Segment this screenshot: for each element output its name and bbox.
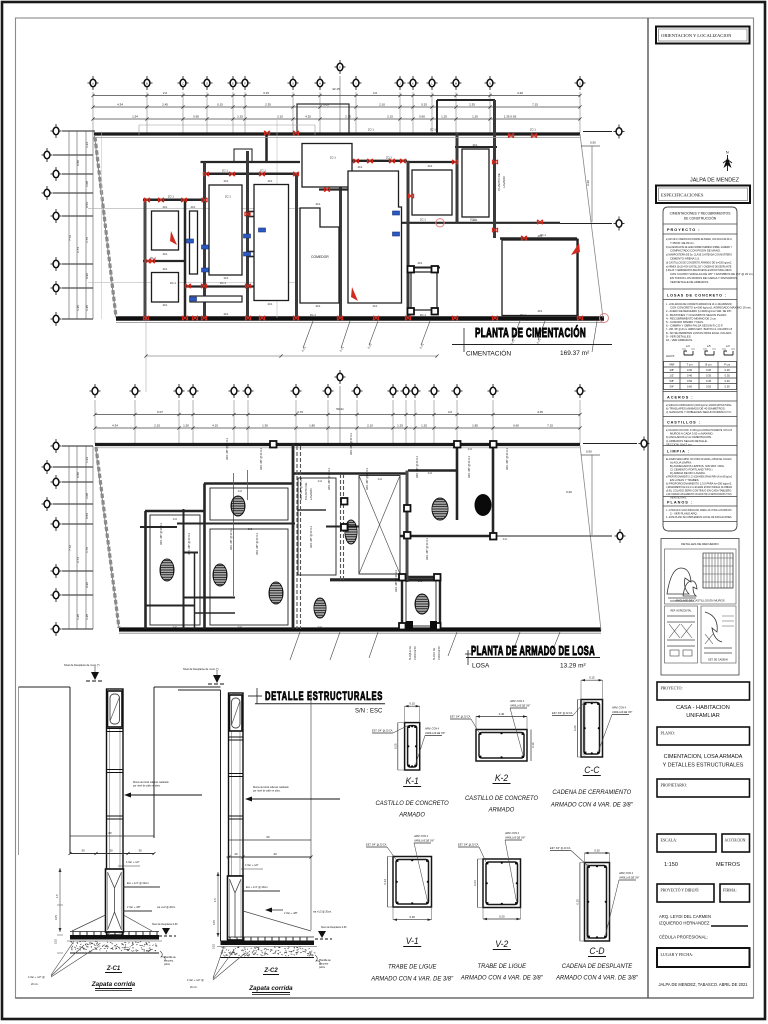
svg-text:0.16: 0.16 bbox=[531, 742, 535, 748]
svg-text:30: 30 bbox=[109, 849, 113, 853]
svg-text:20.1: 20.1 bbox=[268, 303, 273, 306]
ZC2 column joint bbox=[229, 737, 244, 740]
svg-text:2.45: 2.45 bbox=[162, 102, 168, 106]
svg-text:LOSA: LOSA bbox=[472, 663, 490, 670]
section label V-1 bbox=[370, 936, 454, 983]
svg-text:ARMADO: ARMADO bbox=[398, 811, 425, 818]
svg-text:ARM. CON 4: ARM. CON 4 bbox=[504, 832, 520, 835]
svg-text:CADENA DE DESPLANTE: CADENA DE DESPLANTE bbox=[562, 963, 633, 970]
svg-text:C-C: C-C bbox=[428, 472, 433, 475]
svg-text:TRABE DE LIGUE: TRABE DE LIGUE bbox=[478, 963, 527, 970]
svg-text:ZC-1: ZC-1 bbox=[222, 169, 228, 173]
section V-2 bbox=[458, 832, 525, 920]
svg-text:3/8": 3/8" bbox=[670, 368, 675, 372]
svg-text:4.6: 4.6 bbox=[448, 410, 453, 414]
plan2 rotated room label bbox=[304, 482, 313, 500]
svg-text:CIMENTACIÓN: CIMENTACIÓN bbox=[466, 349, 511, 358]
section C-D bbox=[550, 847, 639, 941]
svg-text:CASTILLO DE CONCRETO: CASTILLO DE CONCRETO bbox=[465, 795, 538, 802]
svg-text:0.54: 0.54 bbox=[85, 513, 89, 519]
specifications panel bbox=[663, 207, 754, 531]
svg-text:80: 80 bbox=[108, 831, 112, 835]
title planta de armado de losa bbox=[465, 644, 600, 670]
svg-text:VAR: VAR bbox=[669, 363, 674, 367]
wall bbox=[143, 260, 185, 262]
room bbox=[209, 185, 242, 275]
svg-text:20.1: 20.1 bbox=[191, 206, 196, 209]
svg-text:ARM. CON 4: ARM. CON 4 bbox=[618, 872, 634, 875]
svg-text:VARILLAS DE 3/8": VARILLAS DE 3/8" bbox=[505, 837, 525, 840]
ZC2 spread line bbox=[243, 911, 311, 931]
plan2 left dimension lines bbox=[68, 446, 93, 629]
svg-text:CIMENTACIONES Y RECUBRIMIENTOS: CIMENTACIONES Y RECUBRIMIENTOS bbox=[670, 211, 732, 215]
ZC1 zapata corrida label bbox=[91, 981, 136, 991]
svg-text:20.1: 20.1 bbox=[163, 206, 168, 209]
plan2 left boundary (tapia) bbox=[96, 447, 119, 628]
plan2 interior walls bbox=[145, 444, 493, 629]
svg-text:20.1: 20.1 bbox=[473, 219, 478, 222]
wall bbox=[143, 199, 205, 202]
svg-text:LUGAR Y FECHA:: LUGAR Y FECHA: bbox=[661, 952, 694, 957]
svg-text:20.1: 20.1 bbox=[163, 268, 168, 271]
svg-text:E: E bbox=[232, 82, 234, 86]
svg-text:LOSAS DE CONCRETO :: LOSAS DE CONCRETO : bbox=[667, 294, 727, 298]
svg-text:1/2": 1/2" bbox=[670, 374, 675, 378]
ZC2 column head box bbox=[230, 695, 243, 731]
svg-text:0.24: 0.24 bbox=[383, 879, 387, 885]
wall bbox=[246, 151, 249, 318]
svg-text:2.15: 2.15 bbox=[154, 423, 160, 427]
svg-text:ZC-1: ZC-1 bbox=[520, 313, 526, 317]
svg-text:20.1: 20.1 bbox=[163, 304, 168, 307]
proyecto text bbox=[676, 705, 730, 719]
svg-text:1.85: 1.85 bbox=[309, 423, 315, 427]
svg-text:por nivel de calle en obra.: por nivel de calle en obra. bbox=[253, 790, 281, 793]
svg-text:20.1: 20.1 bbox=[373, 305, 378, 308]
svg-text:DETALLES DE REFUERZO: DETALLES DE REFUERZO bbox=[681, 542, 719, 546]
svg-text:EST. 3/4" @ 20 CA.: EST. 3/4" @ 20 CA. bbox=[450, 716, 471, 719]
svg-text:PROPIETARIO:: PROPIETARIO: bbox=[661, 783, 688, 788]
wall bbox=[500, 237, 577, 240]
svg-text:var.+1/2 @ 20cm.: var.+1/2 @ 20cm. bbox=[157, 906, 176, 909]
svg-text:C-C: C-C bbox=[378, 478, 383, 481]
svg-text:4.20: 4.20 bbox=[517, 91, 523, 95]
svg-text:ZC-1: ZC-1 bbox=[430, 128, 436, 132]
svg-text:O: O bbox=[579, 82, 581, 86]
svg-text:VAR. 3/8" @ 20 V-1: VAR. 3/8" @ 20 V-1 bbox=[230, 528, 233, 550]
svg-text:0.30: 0.30 bbox=[409, 915, 415, 919]
svg-text:UNIFAMLIAR: UNIFAMLIAR bbox=[686, 713, 720, 719]
proyecto y dibujo box bbox=[657, 884, 714, 902]
svg-text:Nivel de Desplante 0.60: Nivel de Desplante 0.60 bbox=[321, 926, 347, 929]
ZC1 gravel bed bbox=[67, 941, 162, 953]
wall stub bbox=[248, 252, 259, 257]
svg-text:VER DETALLE DE ARMADOS.: VER DETALLE DE ARMADOS. bbox=[670, 280, 709, 284]
svg-text:C-D: C-D bbox=[589, 946, 605, 957]
svg-text:TRABE DE LIGUE: TRABE DE LIGUE bbox=[388, 964, 437, 971]
svg-text:CONCRETO: CONCRETO bbox=[438, 646, 441, 660]
propietario box bbox=[657, 779, 750, 797]
svg-text:G: G bbox=[292, 82, 294, 86]
wall bbox=[456, 133, 459, 223]
plan2 leader labels bbox=[290, 621, 560, 660]
wall tags bbox=[150, 128, 546, 318]
column markers bbox=[408, 266, 439, 315]
svg-text:0.15: 0.15 bbox=[409, 702, 415, 706]
svg-text:ARMADO CON 4 VAR. DE 3/8": ARMADO CON 4 VAR. DE 3/8" bbox=[370, 975, 454, 982]
svg-text:2.35: 2.35 bbox=[469, 102, 475, 106]
svg-text:VAR. 3/8" @ 20 V-1: VAR. 3/8" @ 20 V-1 bbox=[226, 438, 229, 460]
svg-text:ZC-1: ZC-1 bbox=[220, 281, 226, 285]
section label K-1 bbox=[376, 776, 449, 819]
ZC1 pedestal bbox=[106, 869, 124, 932]
plan1 grid bubbles top row bbox=[88, 76, 586, 90]
escala value bbox=[664, 862, 740, 868]
svg-text:0.75: 0.75 bbox=[213, 920, 216, 925]
svg-text:6.07: 6.07 bbox=[157, 410, 163, 414]
svg-text:2.10: 2.10 bbox=[277, 114, 283, 118]
wall bbox=[319, 187, 357, 191]
svg-text:10.- VER ARMADOS.: 10.- VER ARMADOS. bbox=[666, 338, 693, 342]
svg-text:VAR. 3/8" @ 20 V-1: VAR. 3/8" @ 20 V-1 bbox=[160, 523, 163, 545]
svg-text:ACOTACION:: ACOTACION: bbox=[725, 839, 747, 843]
ZC2 right level marker bbox=[315, 931, 332, 939]
svg-text:METROS: METROS bbox=[716, 862, 740, 868]
svg-text:K-2: K-2 bbox=[495, 773, 508, 784]
svg-text:P: P bbox=[339, 66, 341, 70]
svg-text:0.20: 0.20 bbox=[213, 944, 216, 949]
svg-text:3.- ESTE PLANO SE COMPLEMENTA: 3.- ESTE PLANO SE COMPLEMENTA CON EL DE … bbox=[666, 515, 732, 519]
svg-text:1.24: 1.24 bbox=[85, 457, 89, 463]
svg-text:0.35: 0.35 bbox=[706, 374, 712, 378]
red arrow markers bbox=[170, 219, 609, 323]
svg-text:DETALLE ESTRUCTURALES: DETALLE ESTRUCTURALES bbox=[265, 691, 383, 703]
title planta de cimentacion bbox=[452, 325, 612, 358]
svg-text:0.20: 0.20 bbox=[393, 743, 397, 749]
svg-text:ARM. CON 4: ARM. CON 4 bbox=[611, 707, 627, 710]
room bbox=[502, 240, 577, 316]
ZC2 pedestal bbox=[228, 876, 244, 940]
room bath bbox=[411, 272, 437, 310]
svg-text:C-C: C-C bbox=[503, 538, 508, 541]
svg-text:N: N bbox=[489, 82, 491, 86]
section label C-D bbox=[555, 946, 639, 982]
svg-text:CASTILLO DE CONCRETO: CASTILLO DE CONCRETO bbox=[376, 800, 449, 807]
svg-text:VARILLAS DE 3/8": VARILLAS DE 3/8" bbox=[612, 711, 632, 714]
svg-text:20.1: 20.1 bbox=[538, 235, 543, 238]
svg-text:Z-C1: Z-C1 bbox=[106, 966, 121, 972]
svg-text:CADENA DE CERRAMIENTO: CADENA DE CERRAMIENTO bbox=[552, 789, 631, 796]
svg-text:C-C: C-C bbox=[173, 518, 178, 521]
svg-text:PROYECTO:: PROYECTO: bbox=[661, 686, 683, 691]
svg-text:40: 40 bbox=[273, 852, 277, 856]
svg-text:0.30: 0.30 bbox=[687, 368, 693, 372]
svg-text:0.40: 0.40 bbox=[687, 374, 693, 378]
ZC1 muros label bbox=[124, 781, 202, 798]
plan2 grid extension lines bbox=[95, 400, 580, 444]
ZC2 level marker bbox=[183, 667, 226, 684]
plan2 right grid bubbles bbox=[495, 437, 650, 544]
svg-text:2.10: 2.10 bbox=[379, 102, 385, 106]
plan1 right grid bubbles bbox=[560, 125, 625, 231]
plan1 bottom dimension line bbox=[144, 354, 438, 357]
svg-text:Zapata corrida: Zapata corrida bbox=[91, 981, 136, 988]
title column separator bbox=[647, 18, 649, 998]
svg-text:20.1: 20.1 bbox=[163, 253, 168, 256]
svg-text:1.5: 1.5 bbox=[213, 898, 217, 902]
room comedor bbox=[300, 208, 339, 303]
svg-text:0.60: 0.60 bbox=[419, 114, 425, 118]
svg-text:0.25: 0.25 bbox=[421, 102, 427, 106]
ZC1 plantilla label bbox=[160, 951, 176, 966]
svg-text:20.1: 20.1 bbox=[268, 180, 273, 183]
svg-text:0.50: 0.50 bbox=[76, 472, 80, 478]
svg-text:1.54: 1.54 bbox=[132, 114, 138, 118]
wall bbox=[205, 173, 299, 176]
svg-text:0.40: 0.40 bbox=[499, 712, 505, 716]
section label V-2 bbox=[460, 939, 544, 982]
svg-text:2.74: 2.74 bbox=[76, 247, 80, 253]
svg-text:0.54: 0.54 bbox=[85, 202, 89, 208]
plan1 bottom foundation wall bbox=[116, 316, 604, 320]
svg-text:H: H bbox=[319, 82, 321, 86]
svg-text:1.76: 1.76 bbox=[85, 237, 89, 243]
svg-text:C-C: C-C bbox=[418, 580, 423, 583]
svg-text:0.40: 0.40 bbox=[725, 379, 731, 383]
svg-text:PLANO:: PLANO: bbox=[661, 731, 675, 736]
svg-text:4.25: 4.25 bbox=[537, 410, 543, 414]
red rebar markers bbox=[143, 131, 582, 320]
svg-text:0.50: 0.50 bbox=[725, 385, 731, 389]
svg-text:S/N : ESC: S/N : ESC bbox=[355, 709, 383, 715]
svg-text:1.20: 1.20 bbox=[472, 114, 478, 118]
ZC2 column joint bbox=[229, 774, 244, 777]
svg-text:ZC-1: ZC-1 bbox=[368, 128, 374, 132]
svg-text:3.20: 3.20 bbox=[586, 180, 590, 186]
svg-text:ZC-1: ZC-1 bbox=[330, 156, 336, 160]
svg-text:2.35: 2.35 bbox=[345, 114, 351, 118]
svg-text:30: 30 bbox=[81, 849, 85, 853]
svg-text:7.72: 7.72 bbox=[68, 545, 72, 551]
svg-text:JALPA DE MENDEZ: JALPA DE MENDEZ bbox=[690, 178, 740, 184]
stairs opening X bbox=[359, 476, 400, 575]
svg-text:A: A bbox=[92, 82, 94, 86]
svg-text:por nivel de calle en obra.: por nivel de calle en obra. bbox=[133, 785, 161, 788]
wall bbox=[436, 100, 438, 133]
svg-text:2.15: 2.15 bbox=[387, 114, 393, 118]
svg-text:7.15: 7.15 bbox=[547, 423, 553, 427]
svg-text:EST. 3/4" @ 20 CA.: EST. 3/4" @ 20 CA. bbox=[552, 712, 573, 715]
ZC2 ground level lines bbox=[178, 690, 311, 941]
svg-text:4.25: 4.25 bbox=[305, 114, 311, 118]
svg-text:50.41: 50.41 bbox=[336, 407, 344, 411]
svg-text:CÉDULA PROFESIONAL:: CÉDULA PROFESIONAL: bbox=[659, 935, 708, 940]
svg-text:P cm: P cm bbox=[724, 363, 730, 367]
svg-text:N: N bbox=[726, 150, 729, 155]
svg-text:Y DETALLES ESTRUCTURALES: Y DETALLES ESTRUCTURALES bbox=[663, 763, 744, 769]
wall stub bbox=[249, 212, 259, 217]
ZC2 rebar labels bbox=[241, 864, 347, 929]
section K-2 bbox=[450, 700, 535, 761]
svg-text:1.08: 1.08 bbox=[85, 493, 89, 499]
svg-text:ARMADO CON 4 VAR. DE 3/8": ARMADO CON 4 VAR. DE 3/8" bbox=[555, 975, 639, 982]
svg-text:VAR. 3/8" @ 20 V-1: VAR. 3/8" @ 20 V-1 bbox=[328, 468, 331, 490]
svg-text:CASA - HABITACION: CASA - HABITACION bbox=[676, 705, 730, 711]
wall bbox=[402, 222, 560, 224]
svg-text:0.20: 0.20 bbox=[55, 939, 58, 944]
svg-text:1.25: 1.25 bbox=[85, 614, 89, 620]
svg-text:C-C: C-C bbox=[468, 448, 473, 451]
svg-text:2 Var. + 3/8": 2 Var. + 3/8" bbox=[127, 906, 141, 909]
svg-text:1.25: 1.25 bbox=[237, 114, 243, 118]
architect name bbox=[659, 914, 748, 940]
title detalle estructurales bbox=[248, 688, 385, 715]
svg-text:3.15: 3.15 bbox=[263, 91, 269, 95]
svg-text:D: D bbox=[206, 82, 208, 86]
svg-text:VAR. 3/8" @ 20 V-1: VAR. 3/8" @ 20 V-1 bbox=[416, 456, 419, 478]
slab rebar labels bbox=[160, 433, 509, 592]
svg-text:ZC-1: ZC-1 bbox=[150, 256, 156, 260]
svg-text:4.34: 4.34 bbox=[117, 102, 123, 106]
orientation title box bbox=[656, 27, 750, 44]
svg-text:PLANOS :: PLANOS : bbox=[667, 501, 693, 505]
wall bbox=[576, 239, 579, 319]
svg-text:1:150: 1:150 bbox=[664, 862, 678, 868]
wall bbox=[455, 146, 497, 148]
svg-text:1.25: 1.25 bbox=[76, 614, 80, 620]
svg-text:4.6: 4.6 bbox=[373, 91, 378, 95]
svg-text:2.35: 2.35 bbox=[265, 102, 271, 106]
plan1 left dimension lines bbox=[68, 131, 93, 319]
svg-text:Z-C2: Z-C2 bbox=[263, 968, 278, 974]
svg-text:1.30: 1.30 bbox=[262, 423, 268, 427]
ZC1 column joint bbox=[107, 770, 124, 773]
plan2 right boundary line bbox=[580, 445, 601, 630]
svg-text:0.95: 0.95 bbox=[193, 114, 199, 118]
ZC2 gravel bed bbox=[217, 947, 317, 958]
svg-text:169.37 m²: 169.37 m² bbox=[560, 350, 590, 357]
svg-text:20.1: 20.1 bbox=[473, 144, 478, 147]
svg-text:DE CONSTRUCCIÓN: DE CONSTRUCCIÓN bbox=[684, 215, 717, 220]
svg-text:0.60: 0.60 bbox=[687, 385, 693, 389]
ZC1 spread lines bbox=[72, 915, 152, 931]
svg-text:20.1: 20.1 bbox=[224, 313, 229, 316]
dala strip bbox=[190, 296, 242, 302]
svg-text:ANCLAJE DE CASTILLOS EN MUROS: ANCLAJE DE CASTILLOS EN MUROS bbox=[675, 599, 724, 603]
svg-text:1.85: 1.85 bbox=[472, 423, 478, 427]
ZC2 column bbox=[229, 693, 244, 876]
svg-text:4.34: 4.34 bbox=[112, 423, 118, 427]
svg-text:3.20: 3.20 bbox=[566, 490, 572, 494]
svg-text:pobre: pobre bbox=[319, 966, 326, 969]
room bbox=[412, 170, 452, 215]
svg-text:COMEDOR: COMEDOR bbox=[311, 255, 329, 259]
porch outline above top wall bbox=[234, 104, 349, 162]
ZC1 right level marker bbox=[152, 923, 178, 936]
svg-text:Nivel de Desplante de muro (*): Nivel de Desplante de muro (*) bbox=[64, 663, 100, 667]
north arrow bbox=[723, 150, 732, 172]
svg-text:C-C: C-C bbox=[318, 480, 323, 483]
svg-text:4.15: 4.15 bbox=[212, 423, 218, 427]
proyecto box bbox=[657, 682, 750, 700]
svg-text:EST. 3/4" @ 20 CA.: EST. 3/4" @ 20 CA. bbox=[458, 844, 479, 847]
ZC1 footing slab bbox=[70, 932, 159, 940]
svg-text:20.1: 20.1 bbox=[358, 166, 363, 169]
ZC2 width dimensions bbox=[227, 835, 313, 859]
wall bbox=[295, 174, 298, 318]
plan2 grid bubbles top row bbox=[90, 384, 586, 398]
room closet bbox=[190, 211, 198, 274]
svg-text:ZC-1: ZC-1 bbox=[420, 218, 426, 222]
hatched drain ellipses bbox=[155, 492, 452, 623]
svg-text:1.25: 1.25 bbox=[85, 305, 89, 311]
plan2 top slab wall bbox=[95, 443, 580, 446]
svg-text:42.15: 42.15 bbox=[332, 87, 340, 91]
svg-text:4 Var. + 1/2" @: 4 Var. + 1/2" @ bbox=[28, 976, 45, 979]
svg-text:PLANTA DE CIMENTACIÓN: PLANTA DE CIMENTACIÓN bbox=[475, 325, 586, 340]
plot boundary solid lines bbox=[95, 136, 120, 629]
svg-text:VAR. 3/8" @ 20 V-1: VAR. 3/8" @ 20 V-1 bbox=[468, 456, 471, 478]
especificaciones title box bbox=[656, 186, 750, 204]
svg-text:0.55: 0.55 bbox=[706, 385, 712, 389]
svg-text:ZC-1: ZC-1 bbox=[225, 195, 231, 199]
plan2 extra interior walls bbox=[140, 470, 359, 629]
svg-text:VARILLAS DE 3/8": VARILLAS DE 3/8" bbox=[510, 705, 530, 708]
svg-text:ARMADO CON 4 VAR. DE 3/8": ARMADO CON 4 VAR. DE 3/8" bbox=[550, 801, 634, 808]
plan2 raised grid bubble bbox=[335, 370, 346, 444]
svg-text:1.25: 1.25 bbox=[76, 305, 80, 311]
svg-text:Nivel de Desplante 0.60: Nivel de Desplante 0.60 bbox=[152, 923, 178, 926]
svg-text:1.25: 1.25 bbox=[397, 423, 403, 427]
svg-text:ZC-1: ZC-1 bbox=[260, 169, 266, 173]
svg-text:T cm: T cm bbox=[687, 363, 693, 367]
svg-text:ARM. CON 4: ARM. CON 4 bbox=[424, 728, 440, 731]
ZC1 level marker bbox=[64, 663, 104, 681]
ZC1 width dimension bbox=[69, 831, 156, 855]
svg-text:ZC-1: ZC-1 bbox=[170, 281, 176, 285]
svg-text:ORIENTACION Y LOCALIZACION: ORIENTACION Y LOCALIZACION bbox=[661, 33, 732, 38]
svg-text:ACOT.: ACOT. bbox=[666, 354, 675, 358]
room cuarto de lavado bbox=[462, 149, 506, 217]
svg-text:M: M bbox=[455, 82, 457, 86]
svg-text:VARILLAS DE 3/8": VARILLAS DE 3/8" bbox=[414, 840, 434, 843]
svg-text:Nivel de Desplante de muro (*): Nivel de Desplante de muro (*) bbox=[183, 667, 219, 671]
svg-text:PROYECTO :: PROYECTO : bbox=[667, 228, 701, 232]
svg-text:20.1: 20.1 bbox=[316, 203, 321, 206]
svg-text:Est. + 1/4" @ 20cm.: Est. + 1/4" @ 20cm. bbox=[246, 886, 269, 889]
ZC2 plantilla label bbox=[315, 955, 331, 969]
svg-text:VAR. 3/8" @ 20 V-1: VAR. 3/8" @ 20 V-1 bbox=[310, 526, 313, 548]
wall bbox=[339, 161, 342, 318]
plan1 raised grid bubble bbox=[335, 60, 346, 133]
ZC1 bottom leaders bbox=[28, 941, 94, 986]
black drain ellipse bbox=[475, 494, 492, 516]
svg-text:VAR. 3/8" @ 20 V-1: VAR. 3/8" @ 20 V-1 bbox=[395, 570, 398, 592]
svg-text:60: 60 bbox=[266, 835, 270, 839]
ZC2 label bbox=[263, 968, 279, 975]
svg-text:ZC-1: ZC-1 bbox=[310, 313, 316, 317]
svg-text:1.5: 1.5 bbox=[55, 894, 59, 898]
wall bbox=[408, 267, 440, 269]
svg-text:0.50: 0.50 bbox=[76, 160, 80, 166]
svg-text:0.20: 0.20 bbox=[499, 915, 505, 919]
ZC1 label bbox=[105, 966, 122, 973]
svg-text:VARILLAS DE 3/8": VARILLAS DE 3/8" bbox=[619, 877, 639, 880]
wall bbox=[185, 285, 260, 287]
svg-text:ARQ. LEYDI DEL CARMEN: ARQ. LEYDI DEL CARMEN bbox=[659, 914, 711, 919]
escala box bbox=[657, 834, 716, 852]
svg-text:LAVADO: LAVADO bbox=[309, 488, 313, 500]
